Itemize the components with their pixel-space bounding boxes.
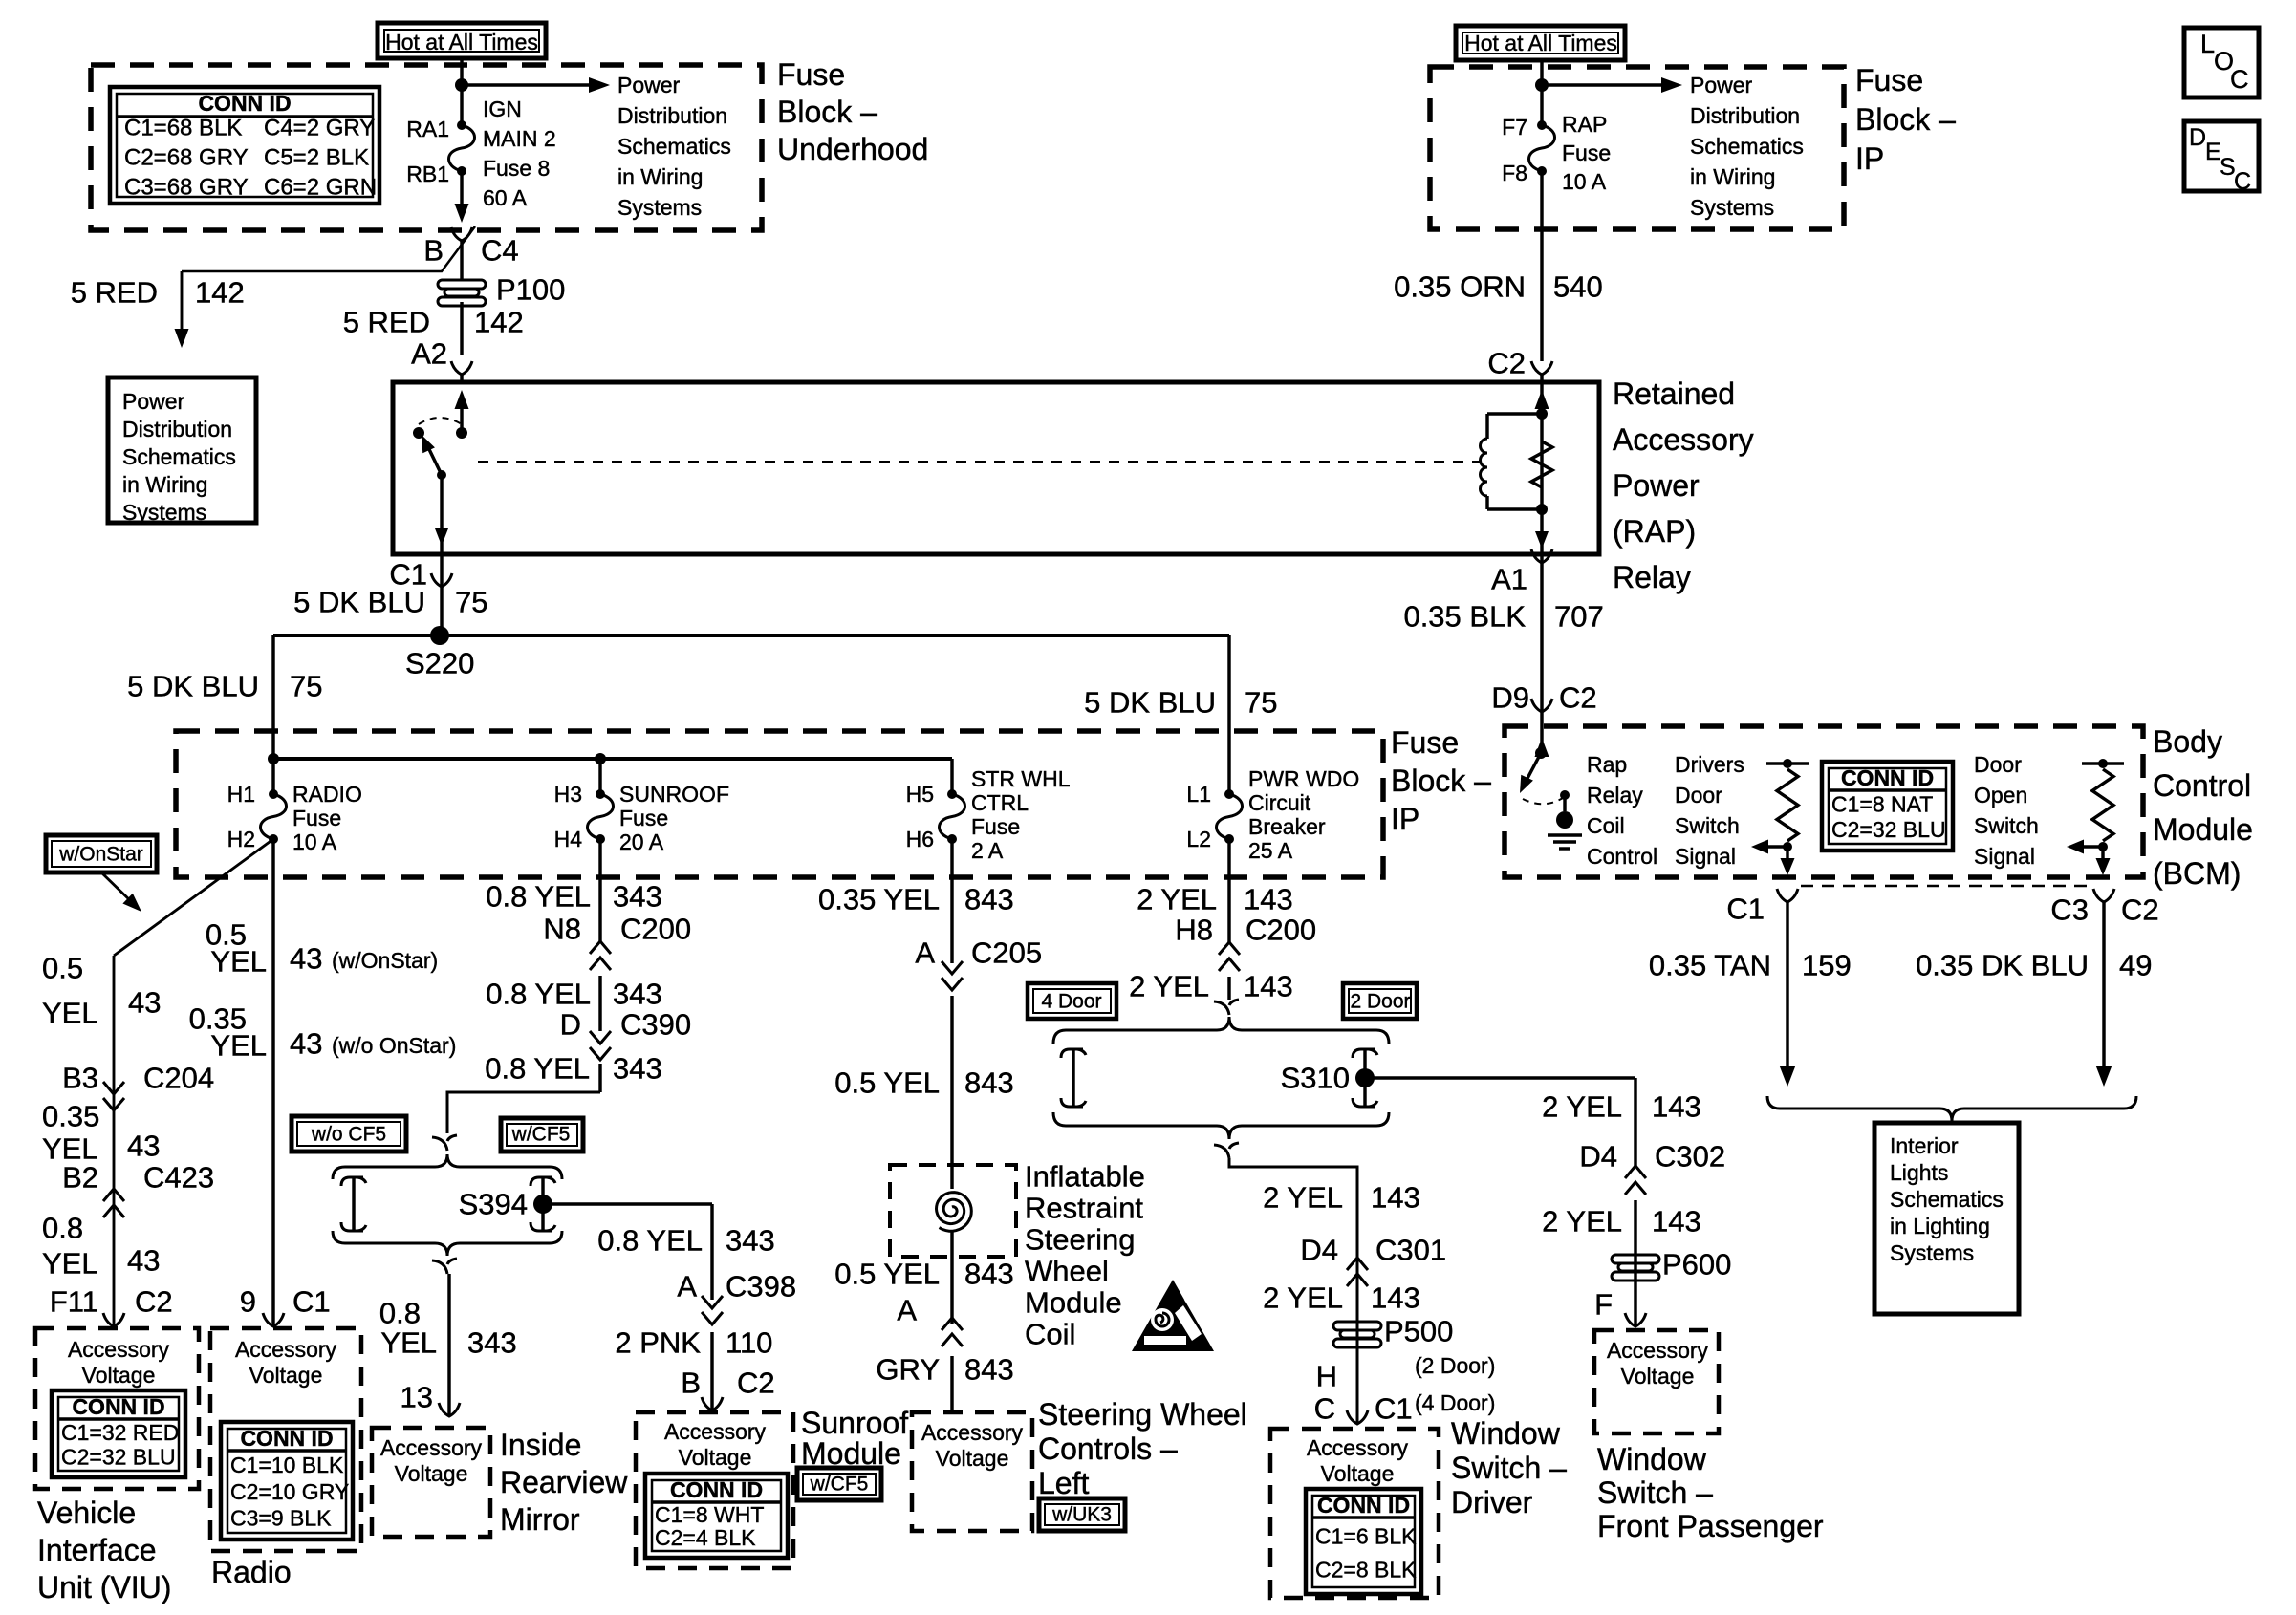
svg-text:0.35 BLK: 0.35 BLK [1403,600,1526,634]
svg-text:Systems: Systems [617,195,702,220]
svg-text:PWR WDO: PWR WDO [1248,766,1359,791]
svg-text:w/CF5: w/CF5 [511,1124,571,1146]
svg-text:20 A: 20 A [619,829,664,854]
svg-text:C2=10 GRY: C2=10 GRY [230,1479,349,1504]
svg-text:Voltage: Voltage [1621,1364,1695,1389]
svg-text:75: 75 [455,586,487,619]
svg-text:C2=4 BLK: C2=4 BLK [655,1525,756,1550]
svg-text:Block –: Block – [1391,764,1491,798]
svg-text:0.5: 0.5 [42,952,83,985]
svg-text:2 YEL: 2 YEL [1542,1205,1622,1238]
svg-text:Unit (VIU): Unit (VIU) [37,1570,171,1604]
svg-text:142: 142 [195,276,245,310]
svg-text:Voltage: Voltage [936,1446,1009,1471]
svg-text:CONN ID: CONN ID [1317,1493,1410,1518]
svg-text:C3=68 GRY: C3=68 GRY [124,175,249,201]
svg-text:Accessory: Accessory [380,1435,483,1460]
svg-text:0.8 YEL: 0.8 YEL [486,880,591,914]
svg-text:10 A: 10 A [292,829,337,854]
svg-text:Fuse: Fuse [1391,725,1459,760]
svg-text:(w/OnStar): (w/OnStar) [332,948,438,973]
svg-text:L2: L2 [1186,827,1211,851]
svg-text:STR WHL: STR WHL [971,766,1071,791]
svg-text:B: B [423,234,444,268]
svg-text:F: F [1594,1288,1613,1322]
svg-text:C2=32 BLU: C2=32 BLU [1831,817,1946,842]
svg-text:F8: F8 [1502,161,1527,185]
svg-text:A: A [897,1294,917,1327]
svg-text:H6: H6 [906,827,934,851]
svg-text:in Wiring: in Wiring [1690,164,1775,189]
svg-text:75: 75 [1245,686,1277,720]
svg-text:in Wiring: in Wiring [617,164,703,189]
svg-text:GRY: GRY [876,1353,940,1387]
svg-text:C302: C302 [1655,1140,1725,1174]
svg-text:Signal: Signal [1675,844,1736,869]
svg-text:IP: IP [1391,802,1419,836]
svg-text:Mirror: Mirror [500,1502,580,1537]
svg-text:CONN ID: CONN ID [1841,765,1934,790]
svg-text:Power: Power [1613,468,1700,503]
svg-text:Hot at All Times: Hot at All Times [1464,31,1617,55]
svg-text:2 YEL: 2 YEL [1129,970,1209,1003]
svg-text:25 A: 25 A [1248,838,1293,863]
svg-text:843: 843 [964,1066,1014,1100]
svg-text:Module: Module [1025,1286,1122,1320]
svg-text:Fuse 8: Fuse 8 [483,156,550,181]
svg-text:Window: Window [1597,1442,1707,1476]
svg-text:13: 13 [401,1381,433,1414]
svg-text:10 A: 10 A [1562,169,1607,194]
svg-text:2 YEL: 2 YEL [1137,883,1217,916]
svg-text:0.5 YEL: 0.5 YEL [834,1066,940,1100]
svg-text:L: L [2200,30,2215,58]
svg-text:Distribution: Distribution [1690,103,1800,128]
svg-text:C1: C1 [1726,893,1765,926]
svg-text:Control: Control [1587,844,1657,869]
svg-text:Power: Power [1690,73,1753,97]
svg-text:C2=32 BLU: C2=32 BLU [61,1445,176,1470]
svg-text:IGN: IGN [483,97,522,121]
svg-text:C6=2 GRN: C6=2 GRN [264,175,377,201]
svg-text:C301: C301 [1375,1234,1446,1267]
svg-text:YEL: YEL [210,945,267,979]
svg-text:Accessory: Accessory [1613,422,1754,457]
svg-text:Power: Power [617,73,681,97]
svg-text:Body: Body [2153,724,2222,759]
svg-text:CONN ID: CONN ID [72,1394,164,1419]
svg-text:C398: C398 [726,1270,796,1303]
svg-text:159: 159 [1802,949,1852,982]
svg-text:2 YEL: 2 YEL [1542,1090,1622,1124]
svg-text:Interface: Interface [37,1533,157,1567]
svg-text:Power: Power [122,389,185,414]
svg-text:C390: C390 [620,1008,691,1042]
svg-text:YEL: YEL [42,1247,98,1281]
svg-text:SUNROOF: SUNROOF [619,782,729,807]
svg-text:C4: C4 [481,234,519,268]
svg-text:Rearview: Rearview [500,1465,628,1499]
svg-text:Accessory: Accessory [1607,1338,1709,1363]
svg-text:0.8: 0.8 [42,1212,83,1245]
svg-text:143: 143 [1371,1181,1420,1215]
svg-text:Inside: Inside [500,1428,581,1462]
svg-text:C200: C200 [1245,914,1316,947]
svg-text:C200: C200 [620,913,691,946]
svg-text:C2: C2 [1559,681,1597,715]
svg-text:2 Door: 2 Door [1350,991,1410,1013]
svg-text:Radio: Radio [211,1555,292,1589]
svg-text:142: 142 [474,306,524,339]
svg-text:C1=6 BLK: C1=6 BLK [1315,1523,1417,1548]
svg-text:RAP: RAP [1562,112,1607,137]
svg-text:C1: C1 [1375,1392,1413,1426]
svg-text:L1: L1 [1186,782,1211,807]
svg-text:Steering: Steering [1025,1223,1135,1257]
svg-text:CONN ID: CONN ID [670,1477,763,1502]
svg-text:F11: F11 [50,1285,98,1319]
svg-text:Accessory: Accessory [235,1337,337,1362]
svg-text:Voltage: Voltage [395,1461,468,1486]
svg-text:143: 143 [1244,970,1293,1003]
svg-text:C204: C204 [143,1062,214,1095]
svg-text:Voltage: Voltage [249,1363,323,1388]
svg-text:Fuse: Fuse [1562,140,1611,165]
svg-text:A1: A1 [1491,563,1527,596]
svg-text:Voltage: Voltage [82,1363,156,1388]
svg-text:YEL: YEL [380,1326,437,1360]
svg-text:H1: H1 [227,782,255,807]
svg-text:343: 343 [726,1224,775,1258]
svg-text:F7: F7 [1502,115,1527,140]
svg-text:5 DK BLU: 5 DK BLU [293,586,425,619]
svg-text:C3=9 BLK: C3=9 BLK [230,1506,332,1531]
svg-text:Fuse: Fuse [619,806,668,830]
svg-text:2 PNK: 2 PNK [615,1326,701,1360]
svg-text:RADIO: RADIO [292,782,362,807]
svg-text:Relay: Relay [1587,783,1643,807]
svg-text:Wheel: Wheel [1025,1255,1109,1288]
svg-text:5 DK BLU: 5 DK BLU [1084,686,1216,720]
svg-text:H8: H8 [1175,914,1213,947]
svg-text:Interior: Interior [1890,1133,1959,1158]
svg-text:0.35: 0.35 [42,1100,99,1133]
svg-text:343: 343 [613,880,662,914]
svg-text:w/UK3: w/UK3 [1051,1504,1112,1526]
svg-text:Distribution: Distribution [122,417,232,441]
svg-text:IP: IP [1855,141,1884,176]
svg-text:C2: C2 [2121,894,2159,927]
svg-text:Switch: Switch [1675,813,1740,838]
svg-text:C3: C3 [2050,894,2089,927]
svg-text:0.8: 0.8 [379,1297,421,1330]
svg-text:P500: P500 [1384,1315,1453,1348]
svg-text:D4: D4 [1300,1234,1338,1267]
svg-text:Sunroof: Sunroof [801,1406,908,1440]
svg-text:C1: C1 [292,1285,331,1319]
svg-text:Fuse: Fuse [1855,63,1923,97]
svg-text:CONN ID: CONN ID [198,91,291,116]
svg-text:Block –: Block – [777,95,877,129]
svg-text:H4: H4 [554,827,583,851]
svg-text:A2: A2 [411,337,447,371]
svg-text:9: 9 [240,1285,256,1319]
svg-text:Left: Left [1038,1466,1089,1500]
svg-text:Accessory: Accessory [68,1337,170,1362]
svg-text:Inflatable: Inflatable [1025,1160,1145,1194]
svg-text:Breaker: Breaker [1248,814,1326,839]
svg-text:Schematics: Schematics [1690,134,1804,159]
svg-text:YEL: YEL [42,997,98,1030]
svg-text:Schematics: Schematics [617,134,731,159]
svg-text:707: 707 [1554,600,1604,634]
svg-text:Front Passenger: Front Passenger [1597,1509,1824,1543]
svg-text:Retained: Retained [1613,377,1735,411]
svg-text:0.8 YEL: 0.8 YEL [485,1052,590,1086]
svg-text:MAIN 2: MAIN 2 [483,126,556,151]
svg-text:143: 143 [1371,1281,1420,1315]
svg-text:H3: H3 [554,782,582,807]
svg-text:C205: C205 [971,937,1042,970]
svg-text:Block –: Block – [1855,102,1956,137]
svg-text:Voltage: Voltage [679,1445,752,1470]
svg-text:w/o CF5: w/o CF5 [311,1124,386,1146]
svg-text:Fuse: Fuse [971,814,1020,839]
svg-text:C423: C423 [143,1161,214,1195]
svg-text:343: 343 [613,1052,662,1086]
svg-text:P600: P600 [1662,1248,1731,1281]
svg-text:75: 75 [290,670,322,703]
svg-text:(4 Door): (4 Door) [1415,1390,1495,1415]
svg-text:w/OnStar: w/OnStar [58,844,143,866]
svg-text:Systems: Systems [122,500,206,525]
svg-text:C2=68 GRY: C2=68 GRY [124,145,249,171]
svg-text:S310: S310 [1281,1062,1350,1095]
svg-text:H5: H5 [906,782,934,807]
svg-text:143: 143 [1652,1205,1701,1238]
svg-text:N8: N8 [543,913,581,946]
svg-text:Signal: Signal [1974,844,2035,869]
svg-text:43: 43 [290,942,322,976]
svg-text:Underhood: Underhood [777,132,928,166]
svg-text:B: B [681,1367,701,1400]
svg-text:4 Door: 4 Door [1041,991,1101,1013]
svg-text:Door: Door [1675,783,1722,807]
svg-text:(2 Door): (2 Door) [1415,1353,1495,1378]
svg-text:2 YEL: 2 YEL [1263,1181,1343,1215]
svg-text:43: 43 [128,986,161,1020]
svg-text:P100: P100 [496,273,565,307]
svg-text:RA1: RA1 [406,117,449,141]
svg-text:C4=2 GRY: C4=2 GRY [264,116,375,141]
svg-text:D4: D4 [1579,1140,1617,1174]
svg-text:in Lighting: in Lighting [1890,1214,1990,1238]
svg-text:S394: S394 [459,1188,528,1221]
svg-text:Lights: Lights [1890,1160,1948,1185]
svg-text:C: C [2234,168,2251,195]
svg-text:C2: C2 [737,1367,775,1400]
svg-text:Schematics: Schematics [122,444,236,469]
svg-text:43: 43 [127,1130,160,1163]
svg-text:D: D [2189,124,2206,151]
svg-text:H: H [1316,1360,1337,1393]
svg-text:Window: Window [1451,1416,1561,1451]
svg-text:Module: Module [2153,812,2253,847]
svg-text:H2: H2 [227,827,255,851]
svg-text:110: 110 [726,1326,772,1360]
svg-text:5 RED: 5 RED [343,306,430,339]
svg-text:C: C [2230,65,2249,94]
svg-text:Accessory: Accessory [1307,1435,1409,1460]
svg-text:Fuse: Fuse [777,57,845,92]
svg-text:843: 843 [964,1353,1014,1387]
svg-text:2 A: 2 A [971,838,1004,863]
svg-text:B2: B2 [62,1161,98,1195]
svg-text:CTRL: CTRL [971,790,1029,815]
svg-text:0.35 DK BLU: 0.35 DK BLU [1916,949,2089,982]
svg-text:0.35 ORN: 0.35 ORN [1394,270,1526,304]
svg-text:Open: Open [1974,783,2027,807]
svg-text:Accessory: Accessory [664,1419,767,1444]
svg-text:Schematics: Schematics [1890,1187,2004,1212]
svg-text:B3: B3 [62,1062,98,1095]
svg-text:C2: C2 [135,1285,173,1319]
svg-text:C1=8 NAT: C1=8 NAT [1831,792,1933,817]
svg-text:(BCM): (BCM) [2153,856,2241,891]
svg-text:0.8 YEL: 0.8 YEL [597,1224,703,1258]
svg-text:Hot at All Times: Hot at All Times [385,30,538,54]
svg-text:Accessory: Accessory [921,1420,1024,1445]
svg-text:Restraint: Restraint [1025,1192,1143,1225]
svg-text:60 A: 60 A [483,185,528,210]
svg-text:5 RED: 5 RED [71,276,158,310]
svg-text:A: A [677,1270,697,1303]
svg-text:CONN ID: CONN ID [240,1426,333,1451]
svg-text:5 DK BLU: 5 DK BLU [127,670,259,703]
svg-text:C2: C2 [1487,347,1526,380]
svg-text:(RAP): (RAP) [1613,514,1696,549]
svg-text:Coil: Coil [1025,1318,1075,1351]
svg-text:Driver: Driver [1451,1485,1533,1519]
svg-text:0.8 YEL: 0.8 YEL [486,978,591,1011]
svg-text:in Wiring: in Wiring [122,472,207,497]
svg-text:Systems: Systems [1690,195,1774,220]
svg-text:w/CF5: w/CF5 [810,1474,869,1496]
svg-text:C5=2 BLK: C5=2 BLK [264,145,369,171]
svg-text:843: 843 [964,883,1014,916]
svg-text:0.35 YEL: 0.35 YEL [818,883,940,916]
svg-text:Door: Door [1974,752,2022,777]
svg-text:143: 143 [1244,883,1293,916]
svg-text:Steering Wheel: Steering Wheel [1038,1397,1247,1432]
svg-text:Coil: Coil [1587,813,1625,838]
svg-text:Fuse: Fuse [292,806,341,830]
svg-text:D9: D9 [1491,681,1529,715]
svg-text:Switch –: Switch – [1451,1451,1567,1485]
svg-text:C: C [1314,1392,1335,1426]
svg-text:C2=8 BLK: C2=8 BLK [1315,1557,1417,1582]
svg-text:Relay: Relay [1613,560,1691,594]
svg-text:2 YEL: 2 YEL [1263,1281,1343,1315]
svg-text:0.35 TAN: 0.35 TAN [1649,949,1771,982]
svg-text:343: 343 [467,1326,517,1360]
svg-text:S220: S220 [405,647,474,680]
svg-text:C1=8 WHT: C1=8 WHT [655,1502,764,1527]
svg-text:49: 49 [2119,949,2152,982]
svg-text:D: D [560,1008,581,1042]
svg-text:43: 43 [127,1244,160,1278]
svg-text:Controls –: Controls – [1038,1432,1178,1466]
svg-text:Distribution: Distribution [617,103,727,128]
svg-text:0.5 YEL: 0.5 YEL [834,1258,940,1291]
svg-text:Circuit: Circuit [1248,790,1311,815]
svg-text:Switch: Switch [1974,813,2039,838]
svg-text:(w/o OnStar): (w/o OnStar) [332,1033,456,1058]
svg-text:Control: Control [2153,768,2251,803]
svg-text:343: 343 [613,978,662,1011]
svg-text:143: 143 [1652,1090,1701,1124]
svg-text:C1=32 RED: C1=32 RED [61,1420,179,1445]
svg-text:843: 843 [964,1258,1014,1291]
svg-text:Rap: Rap [1587,752,1627,777]
svg-text:540: 540 [1553,270,1603,304]
svg-text:Systems: Systems [1890,1240,1974,1265]
svg-text:A: A [915,937,935,970]
svg-text:C1=68 BLK: C1=68 BLK [124,116,242,141]
svg-text:C1=10 BLK: C1=10 BLK [230,1453,344,1477]
svg-text:Vehicle: Vehicle [37,1496,136,1530]
svg-text:43: 43 [290,1027,322,1061]
svg-text:Drivers: Drivers [1675,752,1744,777]
svg-text:Voltage: Voltage [1321,1461,1395,1486]
svg-text:YEL: YEL [210,1029,267,1063]
svg-text:Switch –: Switch – [1597,1475,1713,1510]
svg-text:RB1: RB1 [406,161,449,186]
